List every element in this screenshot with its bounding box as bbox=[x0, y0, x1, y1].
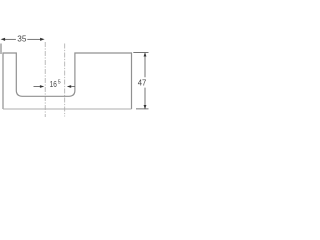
svg-text:5: 5 bbox=[58, 79, 61, 85]
svg-text:47: 47 bbox=[138, 78, 147, 88]
svg-text:16: 16 bbox=[50, 79, 57, 89]
svg-text:35: 35 bbox=[17, 34, 26, 44]
